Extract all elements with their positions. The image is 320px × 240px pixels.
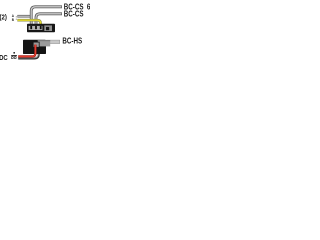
connector J1 right cavity: [44, 25, 52, 31]
wire W6 to BC-HS: [47, 40, 60, 44]
svg-text::: :: [15, 15, 17, 21]
connector J1 pin 3: [40, 26, 42, 29]
connector J2 body: [23, 40, 46, 54]
label note (2) A/B :: [0, 14, 17, 22]
wire W5 black from J2 to DC inlet: [18, 48, 39, 58]
wire W2 gray to BC-CS: [36, 14, 62, 25]
svg-text:6: 6: [87, 3, 90, 12]
connector J2 terminal cavity: [33, 42, 39, 47]
connector J2 shell shading: [38, 40, 50, 41]
svg-text:BC-HS: BC-HS: [62, 37, 82, 46]
svg-text:DC: DC: [0, 55, 8, 63]
connector J2 shell highlight: [38, 40, 50, 46]
connector J1 pin 2: [35, 26, 37, 29]
connector J1 keyway: [46, 27, 49, 30]
connector J1 body: [27, 24, 55, 32]
connector J1 pin 1: [30, 26, 32, 29]
wire W4 red from J2 to DC inlet: [18, 45, 35, 57]
wire W1 gray to BC-CS 6: [31, 7, 62, 25]
svg-text:B: B: [12, 18, 15, 22]
wire W3 yellow: [17, 20, 40, 25]
wire stub gray (legend): [17, 15, 31, 18]
DC inlet icon: [11, 52, 17, 59]
svg-text:(2): (2): [0, 14, 7, 22]
svg-text:BC-CS: BC-CS: [64, 10, 84, 19]
connector J1 left cavity: [29, 26, 43, 30]
